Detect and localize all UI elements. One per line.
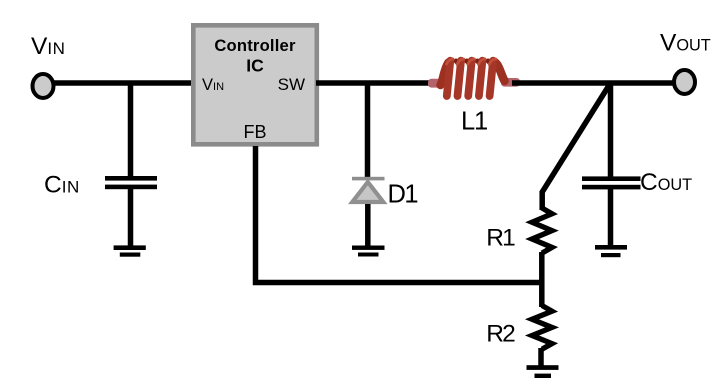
IC U1 Controller box xyxy=(193,25,316,144)
capacitor CIN xyxy=(105,176,157,246)
svg-text:IC: IC xyxy=(246,56,264,76)
wire diagonal from output node to R1 xyxy=(542,83,610,210)
wire SW output to inductor xyxy=(316,80,436,86)
diode D1 xyxy=(352,177,385,246)
svg-text:R1: R1 xyxy=(486,225,515,252)
resistor R2 xyxy=(532,306,552,350)
wire CIN lead down xyxy=(128,83,134,177)
svg-text:D1: D1 xyxy=(388,181,418,209)
svg-text:L1: L1 xyxy=(461,108,487,136)
wire R2 to ground xyxy=(538,348,544,366)
svg-text:FB: FB xyxy=(243,122,266,142)
wire R1 to R2 junction xyxy=(539,252,545,307)
wire D1 lead down from SW node xyxy=(365,83,371,177)
ground under CIN xyxy=(114,245,146,256)
capacitor COUT xyxy=(582,176,641,245)
resistor R1 xyxy=(532,208,552,253)
wire inductor to VOUT xyxy=(512,80,674,86)
inductor L1 xyxy=(428,59,520,96)
svg-text:SW: SW xyxy=(278,75,305,94)
svg-text:Controller: Controller xyxy=(214,36,296,55)
wire COUT lead down from output node xyxy=(608,83,614,177)
ground under D1 xyxy=(352,246,385,257)
node VOUT terminal xyxy=(674,70,695,94)
wire FB feedback xyxy=(256,146,542,283)
ground under R2 xyxy=(527,365,559,378)
svg-text:R2: R2 xyxy=(486,321,515,348)
wire input rail xyxy=(53,80,194,86)
node VIN terminal xyxy=(33,74,54,98)
ground under COUT xyxy=(595,245,627,257)
